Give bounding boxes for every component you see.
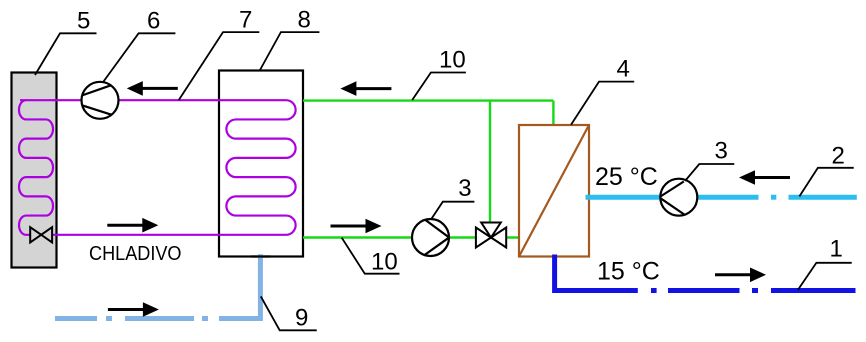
expansion valve (bowtie) in vessel 5 xyxy=(30,227,52,242)
leader label 9 xyxy=(261,296,317,330)
wire: top green line xyxy=(303,99,553,101)
leader label 7 xyxy=(179,32,259,100)
svg-text:25 °C: 25 °C xyxy=(595,163,658,191)
flow arrow (right) above CHLADIVO xyxy=(107,218,158,233)
svg-text:4: 4 xyxy=(617,55,630,82)
heat exchanger 4 (brown box with diagonal) xyxy=(519,125,589,257)
wire: pale blue solid 3 + vertical to vessel 8 xyxy=(219,254,260,318)
svg-text:10: 10 xyxy=(439,47,466,74)
svg-text:2: 2 xyxy=(832,143,845,170)
leader label 3 bottom xyxy=(431,202,474,219)
wire: pale blue dot 2 xyxy=(202,316,208,321)
flow arrow (right) on dark blue xyxy=(715,268,766,283)
svg-text:6: 6 xyxy=(147,7,160,34)
wire: dark blue solid 3 xyxy=(771,288,856,293)
wire: purple top line + coil in vessel 8 xyxy=(20,100,296,235)
wire: dark blue 15C line vertical+first solid xyxy=(555,255,638,291)
flow arrow (left) above purple line xyxy=(127,81,178,96)
leader label 4 xyxy=(571,82,634,125)
svg-text:15 °C: 15 °C xyxy=(597,257,660,285)
pump U6 impeller chords xyxy=(82,85,112,115)
flow arrow (right) on pale blue xyxy=(108,302,159,317)
wire: pale blue solid 2 xyxy=(125,316,194,321)
wire: cyan 25C line (left solid part) xyxy=(586,195,759,200)
svg-text:5: 5 xyxy=(77,7,90,34)
wire: pale blue line 9 solid 1 xyxy=(55,316,97,321)
evaporator vessel 5 (gray) xyxy=(12,73,57,268)
heat exchanger vessel 8 xyxy=(219,71,303,257)
svg-text:9: 9 xyxy=(295,305,308,332)
wire: pale blue dot 1 xyxy=(106,316,112,321)
wire: cyan right solid xyxy=(789,195,857,200)
svg-text:7: 7 xyxy=(239,7,252,34)
wire: cyan dash-dot xyxy=(771,195,776,200)
pump 3 (green loop) circle xyxy=(412,219,449,256)
leader label 6 xyxy=(104,33,176,81)
leader label 10 bottom xyxy=(342,238,400,274)
wire: dark blue dot 1 xyxy=(651,288,657,293)
pump 3 impeller chords xyxy=(660,182,684,215)
pump 3 (cyan line) circle xyxy=(660,179,697,216)
three-way valve xyxy=(476,223,506,248)
svg-text:10: 10 xyxy=(371,249,398,276)
svg-text:3: 3 xyxy=(458,175,471,202)
wire: dark blue solid 2 xyxy=(668,288,740,293)
leader label 3 right xyxy=(685,164,734,181)
wire: dark blue dot 2 xyxy=(752,288,758,293)
coil in vessel 5 (purple) xyxy=(19,100,53,235)
flow arrow (left) on cyan xyxy=(739,170,790,185)
svg-text:CHLADIVO: CHLADIVO xyxy=(89,243,182,265)
wire: bottom green line xyxy=(303,236,519,238)
vessel 8 bottom border over pale blue pipe xyxy=(251,255,270,257)
flow arrow (right) on bottom green xyxy=(331,219,382,234)
svg-text:3: 3 xyxy=(715,138,728,165)
leader label 8 xyxy=(260,32,319,70)
pump U6 circle xyxy=(82,82,119,119)
svg-text:1: 1 xyxy=(830,236,843,263)
wire: green vertical to exchanger 4 xyxy=(552,101,554,125)
svg-text:8: 8 xyxy=(298,7,311,34)
leader label 1 xyxy=(798,263,852,290)
leader label 10 top xyxy=(412,73,466,101)
flow arrow (left) on top green xyxy=(340,81,391,96)
leader label 2 xyxy=(799,168,853,197)
pump 3 impeller chords xyxy=(424,219,449,255)
wire: green vertical to valve xyxy=(489,101,491,223)
leader label 5 xyxy=(35,33,97,75)
